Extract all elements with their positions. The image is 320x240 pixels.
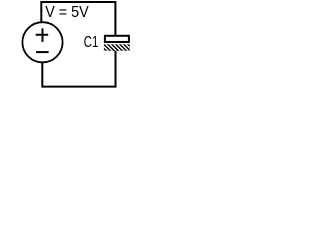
minus symbol of source bbox=[36, 51, 49, 53]
wire: top rail with left drop to source and right drop to capacitor bbox=[41, 2, 115, 36]
svg-text:V = 5V: V = 5V bbox=[45, 4, 89, 21]
capacitor C1 bottom plate (hatched) bbox=[97, 44, 138, 53]
capacitor C1 top plate (hollow) bbox=[105, 36, 129, 42]
wire: bottom rail from source bottom to capacitor bottom bbox=[42, 51, 115, 87]
plus symbol of source bbox=[36, 28, 49, 42]
background bbox=[0, 0, 167, 89]
voltage source V1 (circle) bbox=[22, 22, 62, 62]
svg-text:C1: C1 bbox=[84, 34, 99, 51]
